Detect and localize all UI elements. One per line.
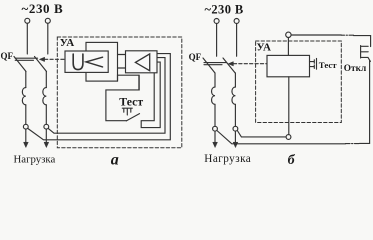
- test box right edge wire (a): [141, 73, 154, 121]
- breaker QF blade pole1 (b): [203, 58, 215, 73]
- wire circle to relay top (b): [287, 38, 289, 56]
- block rect behind threshold (a): [86, 42, 118, 81]
- dashed module box YA (b): [256, 41, 342, 123]
- breaker QF coupler bar (a): [15, 57, 37, 59]
- test button actuator symbol (a): [122, 108, 132, 115]
- dashed module box YA (a): [57, 37, 182, 148]
- breaker QF coupler bar lower (b): [204, 64, 222, 66]
- relay block box (b): [267, 55, 310, 76]
- bridge wire lower between blocks (a): [118, 67, 126, 69]
- terminal circle L1 (a): [25, 18, 30, 23]
- load arrow out1 (a): [25, 129, 27, 142]
- node circle out2 (a): [44, 124, 49, 129]
- transformer winding pole2 (b): [232, 87, 235, 104]
- wire winding1 to node (a): [25, 105, 27, 124]
- svg-text:б: б: [288, 153, 296, 168]
- wire from N1 to QF (a): [47, 23, 49, 54]
- top rail to supply circle (b): [291, 34, 341, 36]
- svg-text:УА: УА: [60, 37, 75, 49]
- node circle out1 (b): [213, 126, 218, 131]
- wire tap from node1 to outer loop (a): [28, 54, 171, 140]
- svg-text:~230 В: ~230 В: [205, 2, 244, 16]
- bridge wire upper between blocks (a): [118, 54, 126, 56]
- trip link arrowhead (b): [228, 62, 233, 66]
- svg-text:Тест: Тест: [119, 95, 143, 109]
- svg-text:а: а: [111, 152, 119, 169]
- glyph U in threshold block (a): [73, 54, 83, 70]
- threshold block U< box (a): [65, 51, 108, 72]
- svg-text:QF: QF: [1, 51, 14, 61]
- wire from L1 to QF (a): [26, 23, 28, 54]
- svg-text:Нагрузка: Нагрузка: [14, 153, 56, 165]
- svg-text:QF: QF: [189, 52, 202, 62]
- breaker QF coupler bar (b): [204, 62, 227, 64]
- wire pole2 to winding (a): [45, 72, 47, 88]
- test button contact blade (a): [126, 114, 139, 121]
- right rail bottom corner (b): [360, 61, 370, 144]
- load arrow out2 (a): [45, 129, 47, 142]
- stop button Otkl symbol (b): [361, 46, 371, 62]
- trip link dashed wire (b): [233, 63, 267, 65]
- breaker QF blade pole2 (a): [35, 57, 47, 72]
- supply tap circle (b): [286, 32, 291, 37]
- wire winding2 to node (b): [234, 104, 236, 126]
- trip link arrowhead (a): [40, 57, 45, 61]
- transformer winding pole2 (a): [43, 88, 46, 105]
- right rail top segment (b): [354, 36, 371, 47]
- wire tap from node2 to mid loop (a): [48, 58, 165, 134]
- svg-text:~230 В: ~230 В: [22, 1, 64, 16]
- block rect behind test (a): [118, 75, 139, 90]
- test circuit box wires (a): [106, 75, 139, 121]
- test button contacts (b): [310, 60, 315, 69]
- svg-text:Нагрузка: Нагрузка: [204, 153, 251, 165]
- terminal circle N1 (b): [234, 19, 239, 24]
- node circle out1 (a): [23, 124, 28, 129]
- trip link dashed wire (a): [45, 58, 65, 60]
- amplifier triangle glyph (a): [135, 54, 149, 71]
- chain segment of top rail (b): [341, 34, 353, 36]
- wire relay bottom to node circle (b): [288, 77, 290, 135]
- node circle out2 (b): [233, 126, 238, 131]
- relay bottom node circle (b): [286, 135, 291, 140]
- glyph less-than in threshold block (a): [86, 57, 103, 67]
- terminal circle L1 (b): [214, 19, 219, 24]
- breaker QF blade pole1 (a): [14, 57, 26, 72]
- svg-text:Тест: Тест: [319, 60, 337, 70]
- svg-text:Откл: Откл: [344, 64, 366, 74]
- load arrow out1 (b): [214, 131, 216, 142]
- wire pole1 to winding (b): [214, 73, 216, 87]
- chain segment of bottom rail (b): [346, 143, 360, 145]
- wire amplifier output loop (a): [141, 62, 160, 128]
- wire winding1 to node (b): [214, 104, 216, 126]
- wire pole2 to winding (b): [234, 73, 236, 87]
- wire tap node1 to right rail (b): [217, 131, 346, 144]
- wire from L1 to QF (b): [216, 24, 218, 57]
- wire tap node2 to relay bottom node (b): [237, 131, 286, 137]
- transformer winding pole1 (a): [22, 88, 25, 105]
- terminal circle N1 (a): [45, 18, 50, 23]
- wire from N1 to QF (b): [236, 24, 238, 57]
- wire pole1 to winding (a): [25, 72, 27, 88]
- amplifier block box (a): [126, 51, 158, 73]
- breaker QF blade pole2 (b): [223, 58, 235, 73]
- breaker QF coupler bar lower (a): [15, 59, 33, 61]
- svg-text:УА: УА: [257, 41, 272, 53]
- load arrow out2 (b): [234, 131, 236, 142]
- test button actuator bar (b): [316, 58, 318, 69]
- wire winding2 to node (a): [45, 105, 47, 124]
- transformer winding pole1 (b): [212, 87, 215, 104]
